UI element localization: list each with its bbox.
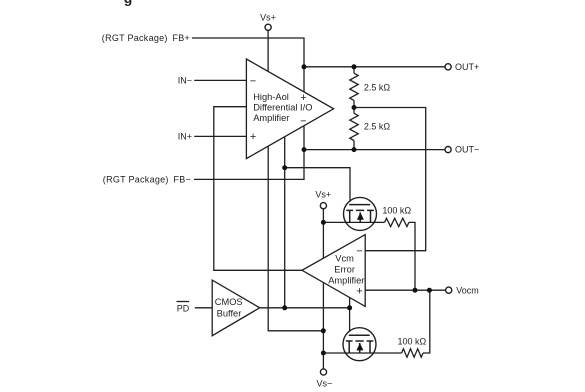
node junction Vs+/Q1 rail <box>321 220 326 225</box>
wire Q1 source-drain rail from Vs+ <box>323 221 384 223</box>
op-amp U1 High-Aol Differential I/O Amplifier <box>246 59 333 159</box>
wire gate branch to Q1 <box>285 168 350 201</box>
svg-text:Vs+: Vs+ <box>260 13 276 23</box>
node junction divider bottom at Vocm <box>427 288 432 293</box>
terminal OUT+ <box>445 64 451 70</box>
transistor Q1 internals <box>346 205 374 223</box>
wire Q2 source-drain rail from Vs- <box>323 352 401 354</box>
svg-text:g: g <box>124 0 133 6</box>
svg-text:CMOS: CMOS <box>215 297 243 307</box>
wire OUT+ line <box>304 66 445 68</box>
svg-text:100 kΩ: 100 kΩ <box>398 336 427 346</box>
svg-text:2.5 kΩ: 2.5 kΩ <box>364 122 391 132</box>
svg-text:−: − <box>250 76 256 88</box>
svg-text:IN−: IN− <box>178 76 192 86</box>
wire Vcm control from error amp output to U1 <box>214 107 302 271</box>
wire Q2 gate drop <box>349 297 351 331</box>
terminal Vs+ top <box>265 24 271 30</box>
resistor R1 2.5k <box>350 73 358 100</box>
svg-text:+: + <box>356 286 362 298</box>
svg-text:OUT−: OUT− <box>455 145 479 155</box>
terminal OUT- <box>445 147 451 153</box>
wire resistor chain top lead <box>353 67 355 73</box>
node junction Vs- rail corner <box>321 328 326 333</box>
svg-text:Error: Error <box>334 265 355 275</box>
label PD overline <box>177 301 190 303</box>
wire OUT- line <box>304 149 445 151</box>
terminal Vs- <box>320 369 326 375</box>
svg-text:+: + <box>250 131 256 143</box>
node junction OUT-/R2 <box>352 147 357 152</box>
wire resistor chain bottom lead <box>353 141 355 150</box>
wire FB- to OUT- node <box>194 126 304 180</box>
wire power-down net vertical from U1 <box>284 137 286 308</box>
node junction buffer output / PD net <box>282 305 287 310</box>
wire 100k bottom to Vocm node <box>423 290 430 353</box>
wire 2.5k midpoint to Vcm error amp inverting input <box>354 108 426 251</box>
wire Vs- divider drop behind U2 <box>322 283 324 369</box>
terminal Vs+ divider <box>320 203 326 209</box>
svg-text:Vcm: Vcm <box>335 254 354 264</box>
svg-text:Vs−: Vs− <box>317 379 333 389</box>
terminal Vocm <box>446 287 452 293</box>
wire Vs+ top drop into amp U1 <box>267 30 269 71</box>
transistor Q1 body arrow <box>357 212 364 219</box>
wire PD input <box>195 307 212 309</box>
wire FB+ to OUT+ node <box>192 38 304 92</box>
svg-text:Vocm: Vocm <box>456 285 479 295</box>
wire resistor chain middle leads <box>353 100 355 113</box>
wire IN+ input <box>194 135 246 137</box>
wire Vs+ divider drop behind U2 <box>322 209 324 258</box>
wire Vcm error amp + input to Vocm <box>365 289 445 291</box>
wire IN- input <box>194 79 246 81</box>
node junction FB+/OUT+ <box>302 64 307 69</box>
svg-text:Vs+: Vs+ <box>315 189 331 199</box>
svg-text:−: − <box>300 116 306 128</box>
transistor Q2 body arrow <box>356 343 363 350</box>
svg-text:Amplifier: Amplifier <box>253 113 289 123</box>
resistor R2 2.5k <box>350 113 358 140</box>
transistor Q1 body circle <box>344 197 377 230</box>
transistor Q2 internals <box>346 335 374 353</box>
node junction R1/R2 midpoint <box>352 105 357 110</box>
node junction divider top at Vocm <box>413 288 418 293</box>
svg-text:OUT+: OUT+ <box>455 62 479 72</box>
transistor Q2 body circle <box>343 328 376 361</box>
svg-text:Buffer: Buffer <box>217 308 242 318</box>
wire 100k top to Vocm node <box>409 222 415 290</box>
svg-text:High-Aol: High-Aol <box>253 92 289 102</box>
svg-text:(RGT Package) FB−: (RGT Package) FB− <box>103 174 191 184</box>
wire U1 Vs- supply drop to Vs- rail <box>268 146 323 331</box>
resistor R4 100k <box>402 349 423 357</box>
node junction FB-/OUT- <box>302 147 307 152</box>
svg-text:2.5 kΩ: 2.5 kΩ <box>364 82 391 92</box>
wire CMOS buffer output <box>260 307 350 309</box>
buffer U3 CMOS Buffer <box>212 280 260 336</box>
svg-text:Differential I/O: Differential I/O <box>253 103 312 113</box>
resistor R3 100k <box>385 218 409 226</box>
svg-text:100 kΩ: 100 kΩ <box>382 205 411 215</box>
op-amp U2 Vcm Error Amplifier <box>302 235 365 307</box>
svg-text:−: − <box>356 245 362 257</box>
svg-text:+: + <box>300 92 306 104</box>
node junction buffer output / Q2 gate <box>347 305 352 310</box>
node junction OUT+/R1 <box>352 64 357 69</box>
svg-text:PD: PD <box>177 304 190 314</box>
svg-text:Amplifier: Amplifier <box>328 275 364 285</box>
node junction Vs-/Q2 rail <box>321 351 326 356</box>
node junction gate branch <box>282 165 287 170</box>
svg-text:(RGT Package) FB+: (RGT Package) FB+ <box>102 33 190 43</box>
svg-text:IN+: IN+ <box>178 132 192 142</box>
